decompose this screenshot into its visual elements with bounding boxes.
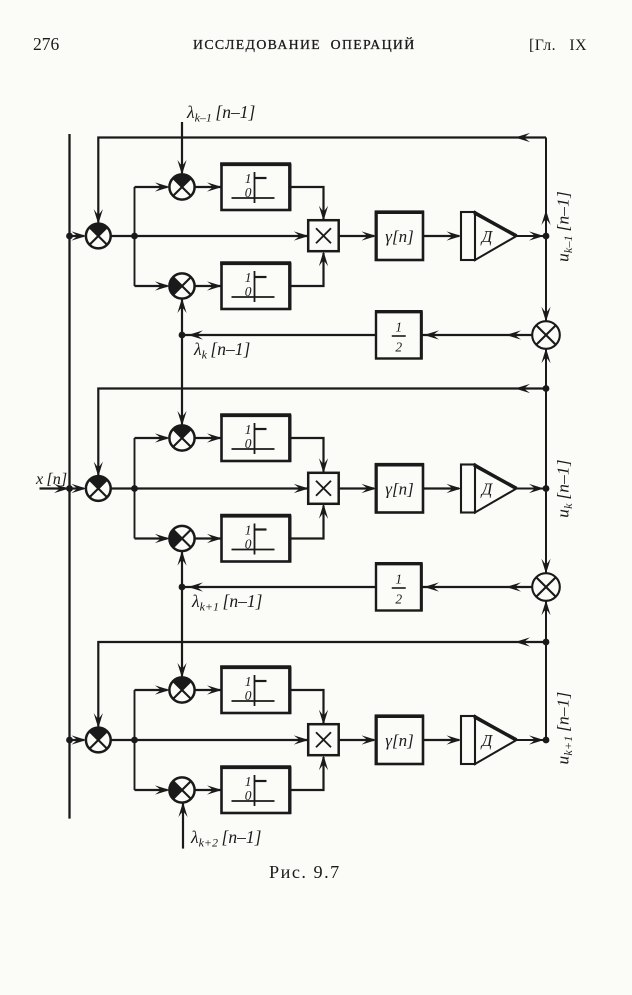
- node: right bus junction row 1 output: [543, 233, 550, 240]
- wire: branch to upper multiplier row 1: [135, 182, 170, 191]
- wire: relay N1a output elbow into product box top: [290, 187, 328, 221]
- product box X2 (multiplier): [308, 473, 339, 504]
- wire: feedback line 3 (from right bus to summing multiplier 3): [94, 637, 546, 728]
- node: lambda_k junction: [179, 332, 186, 339]
- wire: relay N3a output elbow into product box top: [290, 690, 328, 725]
- wire: branch to lower multiplier row 2: [135, 534, 170, 543]
- wire: upper multiplier to relay box row 1: [195, 182, 222, 191]
- wire: branch to lower multiplier row 3: [135, 785, 170, 794]
- svg-text:1: 1: [245, 674, 252, 689]
- relay element N2b (step nonlinearity 1/0): [220, 516, 291, 563]
- relay element N3a (step nonlinearity 1/0): [220, 667, 291, 714]
- wire: feedback line 2 (from right bus to summing multiplier 2): [94, 384, 546, 477]
- node: branch junction row 2: [131, 485, 138, 492]
- wire: gamma block to amplifier row 1: [423, 231, 462, 240]
- svg-text:1: 1: [245, 774, 252, 789]
- wire: main row 2 horizontal to product box: [111, 484, 309, 493]
- wire: branch vertical row 1: [134, 187, 136, 286]
- node: right bus junction row 2 output: [543, 485, 550, 492]
- wire: bus tap into summing multiplier 2: [70, 484, 87, 493]
- relay element N1b (step nonlinearity 1/0): [220, 263, 291, 310]
- node: right bus junction row 3 output: [543, 737, 550, 744]
- svg-text:0: 0: [245, 185, 252, 200]
- wire: main row 3 horizontal to product box: [111, 735, 309, 744]
- wire: correlator P2 output to half block: [423, 582, 533, 591]
- wire: lambda_k+2 input arrow into lower multiplier row 3: [178, 802, 187, 849]
- wire: branch vertical row 2: [134, 438, 136, 539]
- node: branch junction row 3: [131, 737, 138, 744]
- wire: correlator P1 output to half block: [423, 330, 533, 339]
- wire: half block output to lambda node 2: [182, 582, 376, 591]
- wire: amplifier output to right bus row 1: [517, 231, 545, 240]
- wire: product box to gamma block row 3: [339, 735, 377, 744]
- gain block G1 gamma[n]: [375, 212, 424, 261]
- wire: x[n] input arrow: [40, 484, 70, 493]
- multiplier M2a (summing input, circle with cross): [86, 476, 111, 501]
- svg-text:γ[n]: γ[n]: [385, 227, 413, 246]
- product box X3 (multiplier): [308, 724, 339, 755]
- wire: right vertical bus (middle segment): [541, 348, 550, 573]
- svg-text:0: 0: [245, 688, 252, 703]
- wire: lower multiplier to relay box row 1: [195, 281, 222, 290]
- svg-text:Д: Д: [480, 480, 494, 499]
- wire: branch to lower multiplier row 1: [135, 281, 170, 290]
- relay element N1a (step nonlinearity 1/0): [220, 164, 291, 211]
- wire: bus tap into summing multiplier 3: [70, 735, 87, 744]
- amplifier U2 (triangle, letter D): [461, 465, 517, 513]
- node: bus junction row 3: [66, 737, 73, 744]
- wire: amplifier output to right bus row 2: [517, 484, 545, 493]
- wire: gamma block to amplifier row 2: [423, 484, 462, 493]
- wire: upper multiplier to relay box row 3: [195, 685, 222, 694]
- wire: lambda vertical up into lower multiplier row 1: [177, 298, 186, 335]
- wire: product box to gamma block row 2: [339, 484, 377, 493]
- svg-text:2: 2: [395, 340, 402, 355]
- wire: relay N3b output elbow into product box bottom: [290, 755, 328, 790]
- gain block H2 one-half: [375, 564, 423, 612]
- gain block G2 gamma[n]: [375, 465, 424, 514]
- svg-text:γ[n]: γ[n]: [385, 731, 413, 750]
- wire: lambda vertical down into upper multiplier row 2: [177, 335, 186, 426]
- wire: amplifier output to right bus row 3: [517, 735, 545, 744]
- wire: main row 1 horizontal to product box: [111, 231, 309, 240]
- wire: relay N1b output elbow into product box bottom: [290, 251, 328, 286]
- svg-text:ИССЛЕДОВАНИЕ ОПЕРАЦИЙ: ИССЛЕДОВАНИЕ ОПЕРАЦИЙ: [193, 36, 416, 52]
- multiplier M3c (lower, circle with cross): [169, 777, 194, 802]
- multiplier M3b (upper, circle with cross): [169, 677, 194, 702]
- wire: product box to gamma block row 1: [339, 231, 377, 240]
- relay element N3b (step nonlinearity 1/0): [220, 767, 291, 814]
- svg-text:1: 1: [395, 572, 402, 587]
- wire: lower multiplier to relay box row 3: [195, 785, 222, 794]
- multiplier P1 (right bus correlator, circle with cross): [532, 321, 560, 349]
- node: bus junction row 2: [66, 485, 73, 492]
- wire: gamma block to amplifier row 3: [423, 735, 462, 744]
- gain block H1 one-half: [375, 312, 423, 360]
- wire: half block output to lambda node 1: [182, 330, 376, 339]
- product box X1 (multiplier): [308, 220, 339, 251]
- wire: upper multiplier to relay box row 2: [195, 433, 222, 442]
- node: right bus junction feedback line 2: [543, 385, 550, 392]
- wire: right vertical bus (top segment): [541, 138, 550, 322]
- wire: relay N2a output elbow into product box top: [290, 438, 328, 473]
- wire: lower multiplier to relay box row 2: [195, 534, 222, 543]
- svg-text:276: 276: [33, 34, 60, 54]
- svg-text:1: 1: [245, 270, 252, 285]
- svg-text:uk [n–1]: uk [n–1]: [554, 459, 575, 517]
- svg-text:1: 1: [245, 171, 252, 186]
- svg-text:0: 0: [245, 788, 252, 803]
- svg-text:0: 0: [245, 537, 252, 552]
- wire: right vertical bus (bottom segment): [541, 600, 550, 740]
- wire: lambda vertical down into upper multiplier row 3: [177, 587, 186, 678]
- wire: branch vertical row 3: [134, 690, 136, 790]
- svg-text:Д: Д: [480, 227, 494, 246]
- svg-text:1: 1: [245, 422, 252, 437]
- relay element N2a (step nonlinearity 1/0): [220, 415, 291, 462]
- gain block G3 gamma[n]: [375, 716, 424, 765]
- multiplier M1b (upper, circle with cross): [169, 174, 194, 199]
- multiplier M1a (summing input, circle with cross): [86, 224, 111, 249]
- svg-text:x [n]: x [n]: [35, 470, 67, 488]
- svg-text:1: 1: [395, 320, 402, 335]
- wire: relay N2b output elbow into product box bottom: [290, 504, 328, 539]
- svg-text:2: 2: [395, 592, 402, 607]
- wire: left vertical input bus x[n]: [68, 134, 70, 819]
- node: right bus junction feedback line 3: [543, 639, 550, 646]
- svg-text:1: 1: [245, 523, 252, 538]
- svg-text:0: 0: [245, 284, 252, 299]
- svg-text:[Гл. IX: [Гл. IX: [529, 37, 587, 54]
- wire: bus tap into summing multiplier 1: [70, 231, 87, 240]
- multiplier M1c (lower, circle with cross): [169, 273, 194, 298]
- amplifier U3 (triangle, letter D): [461, 716, 517, 764]
- multiplier M2b (upper, circle with cross): [169, 425, 194, 450]
- wire: branch to upper multiplier row 2: [135, 433, 170, 442]
- wire: feedback line 1 (from right bus to summing multiplier 1): [94, 133, 546, 224]
- wire: branch to upper multiplier row 3: [135, 685, 170, 694]
- amplifier U1 (triangle, letter D): [461, 212, 517, 260]
- node: lambda_k+1 junction: [179, 584, 186, 591]
- multiplier M2c (lower, circle with cross): [169, 526, 194, 551]
- multiplier P2 (right bus correlator, circle with cross): [532, 573, 560, 601]
- node: branch junction row 1: [131, 233, 138, 240]
- wire: lambda_k-1 input arrow into upper multiplier row 1: [177, 122, 186, 175]
- node: bus junction row 1: [66, 233, 73, 240]
- svg-text:Рис. 9.7: Рис. 9.7: [269, 862, 341, 882]
- multiplier M3a (summing input, circle with cross): [86, 728, 111, 753]
- svg-text:γ[n]: γ[n]: [385, 480, 413, 499]
- wire: lambda vertical up into lower multiplier row 2: [177, 551, 186, 587]
- svg-text:Д: Д: [480, 731, 494, 750]
- svg-text:0: 0: [245, 436, 252, 451]
